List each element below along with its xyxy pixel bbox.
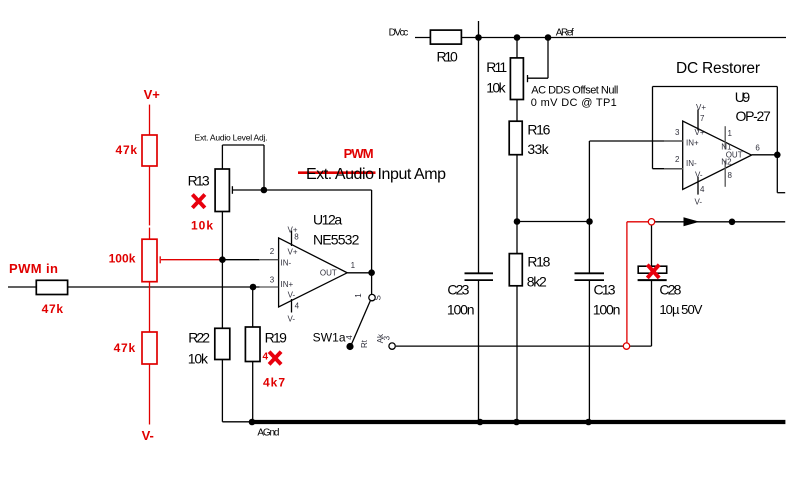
svg-text:DVcc: DVcc [389,28,409,39]
svg-text:V-: V- [695,198,703,207]
svg-text:R16: R16 [527,121,550,137]
svg-text:IN-: IN- [281,259,292,268]
svg-text:OUT: OUT [320,268,337,277]
svg-text:V-: V- [288,315,296,324]
svg-text:IN-: IN- [686,159,697,168]
svg-text:4: 4 [295,302,300,311]
svg-text:47k: 47k [42,302,64,316]
svg-text:V-: V- [695,171,703,180]
svg-text:100k: 100k [109,252,136,266]
svg-text:ARef: ARef [556,28,574,39]
svg-text:1: 1 [728,129,733,138]
svg-text:V+: V+ [144,87,161,102]
svg-text:U9: U9 [735,89,751,105]
svg-text:33k: 33k [527,141,549,157]
svg-text:6: 6 [755,144,760,153]
svg-text:U12a: U12a [313,211,342,227]
svg-text:R19: R19 [265,330,288,346]
svg-text:V+: V+ [288,247,298,256]
svg-text:V+: V+ [695,128,705,137]
svg-text:4: 4 [700,185,705,194]
svg-text:1: 1 [351,261,356,270]
svg-text:PWM in: PWM in [9,261,58,276]
svg-text:2: 2 [270,247,275,256]
svg-text:C13: C13 [594,281,616,297]
svg-text:C28: C28 [659,281,681,297]
svg-text:10k: 10k [191,219,213,233]
svg-text:C23: C23 [447,281,469,297]
svg-text:R11: R11 [486,59,507,75]
svg-text:Ext. Audio Level Adj.: Ext. Audio Level Adj. [195,132,268,142]
svg-text:NE5532: NE5532 [313,232,360,248]
svg-text:0 mV DC @ TP1: 0 mV DC @ TP1 [531,97,617,109]
svg-text:Ext. Audio Input Amp: Ext. Audio Input Amp [306,166,446,183]
svg-text:3: 3 [675,128,680,137]
svg-text:R13: R13 [188,172,210,188]
svg-text:4: 4 [345,335,354,340]
svg-text:V-: V- [288,290,296,299]
svg-text:R22: R22 [188,330,210,346]
svg-text:3: 3 [382,335,391,340]
svg-text:3: 3 [270,276,275,285]
svg-text:1: 1 [354,293,363,298]
svg-text:8k2: 8k2 [527,274,547,290]
svg-text:AGnd: AGnd [257,428,279,439]
svg-text:AC DDS Offset Null: AC DDS Offset Null [531,85,618,97]
svg-text:8: 8 [728,171,733,180]
svg-text:100n: 100n [593,302,621,318]
svg-text:PWM: PWM [344,146,374,161]
svg-text:8: 8 [294,233,299,242]
svg-text:S: S [374,295,383,300]
svg-text:IN+: IN+ [281,280,294,289]
svg-text:10µ 50V: 10µ 50V [659,302,702,317]
svg-text:100n: 100n [447,302,475,318]
svg-text:V+: V+ [696,103,706,112]
svg-text:R10: R10 [437,49,459,65]
svg-text:4k7: 4k7 [263,375,285,389]
svg-text:10k: 10k [486,80,506,96]
svg-text:47k: 47k [114,341,136,355]
svg-text:V-: V- [142,428,154,443]
svg-text:4: 4 [263,352,269,363]
svg-text:DC Restorer: DC Restorer [676,60,760,77]
svg-text:OP-27: OP-27 [736,108,772,124]
svg-text:IN+: IN+ [686,139,699,148]
svg-text:47k: 47k [116,143,138,157]
svg-text:R18: R18 [527,253,550,269]
svg-text:10k: 10k [188,351,209,367]
svg-text:N2: N2 [721,157,732,166]
svg-text:7: 7 [700,114,705,123]
svg-text:SW1a: SW1a [313,331,346,345]
svg-text:2: 2 [675,155,680,164]
svg-text:Rt: Rt [360,339,369,348]
